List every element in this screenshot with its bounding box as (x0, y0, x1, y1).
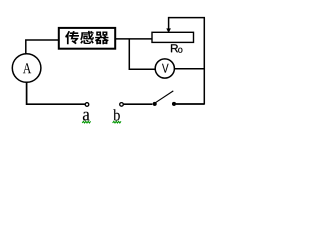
spellcheck squiggle under b (113, 121, 121, 123)
switch S (153, 91, 176, 106)
terminal a (85, 103, 89, 107)
wire (116, 38, 153, 40)
sensor box (59, 28, 115, 49)
node a label (83, 112, 90, 121)
label sensor char 1 (65, 31, 79, 44)
spellcheck squiggle under a (82, 121, 90, 123)
rheostat R0 body (152, 32, 194, 42)
label sensor char 2 (80, 31, 94, 44)
wire (174, 68, 204, 70)
wire (123, 103, 152, 105)
terminal b (120, 103, 124, 107)
wire (129, 39, 155, 69)
voltmeter V (155, 59, 174, 78)
rheostat R0 wiper arrow (166, 17, 171, 33)
wire (203, 18, 205, 105)
label sensor char 3 (95, 31, 109, 44)
wire (26, 40, 59, 54)
wire (176, 103, 204, 105)
wire (27, 82, 86, 104)
wire (169, 17, 205, 19)
ammeter A (12, 54, 41, 83)
node b label (113, 109, 120, 120)
label R0 (171, 44, 182, 52)
